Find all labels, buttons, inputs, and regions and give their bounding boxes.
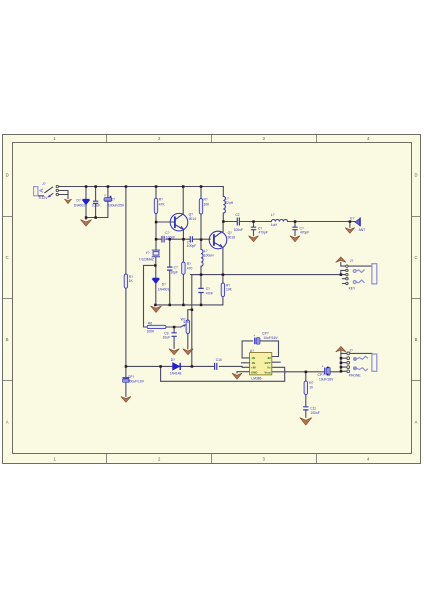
svg-text:1uH: 1uH [271, 223, 278, 227]
svg-text:R6: R6 [148, 322, 152, 326]
svg-text:KEY: KEY [349, 286, 356, 290]
svg-text:10K: 10K [226, 288, 233, 292]
svg-text:9018: 9018 [228, 235, 236, 239]
svg-text:D?: D? [77, 199, 81, 203]
svg-text:L?: L? [271, 213, 275, 217]
svg-text:R?: R? [309, 381, 313, 385]
svg-text:GND: GND [251, 370, 257, 374]
svg-text:B: B [415, 337, 418, 342]
svg-text:J?: J? [349, 348, 353, 352]
svg-text:10uF/16V: 10uF/16V [263, 336, 278, 340]
svg-text:9-12V: 9-12V [39, 196, 49, 200]
svg-text:-IN: -IN [267, 356, 271, 360]
svg-text:R?: R? [159, 197, 163, 201]
svg-text:100nF: 100nF [310, 411, 319, 415]
svg-text:J?: J? [42, 182, 46, 186]
svg-text:Y?: Y? [146, 251, 150, 255]
svg-text:C?: C? [111, 197, 115, 201]
svg-text:E?: E? [350, 217, 354, 221]
svg-text:-IN: -IN [251, 356, 255, 360]
svg-text:C?: C? [206, 287, 210, 291]
svg-text:C?: C? [165, 231, 169, 235]
svg-text:R?: R? [187, 262, 191, 266]
svg-text:C10: C10 [216, 358, 222, 362]
svg-text:1N4001: 1N4001 [158, 287, 170, 291]
svg-text:+IN: +IN [251, 366, 256, 370]
svg-text:470pF: 470pF [258, 231, 267, 235]
svg-text:100uH: 100uH [204, 253, 214, 257]
svg-text:D: D [414, 173, 417, 178]
svg-text:+: + [104, 194, 106, 198]
svg-text:10: 10 [309, 386, 313, 390]
svg-text:100uF/25V: 100uF/25V [108, 204, 125, 208]
svg-text:100nF: 100nF [166, 236, 175, 240]
svg-text:B: B [6, 337, 9, 342]
svg-text:10uF/16V: 10uF/16V [319, 378, 334, 382]
svg-text:CP?: CP? [318, 373, 325, 377]
svg-text:U?: U? [250, 349, 254, 353]
svg-text:R?: R? [204, 197, 208, 201]
svg-text:10K: 10K [204, 203, 211, 207]
svg-text:J?: J? [350, 259, 354, 263]
svg-text:1N4001: 1N4001 [74, 204, 86, 208]
svg-text:D?: D? [162, 282, 166, 286]
svg-text:100uF/10V: 100uF/10V [128, 380, 145, 384]
svg-text:+: + [322, 365, 324, 369]
svg-text:22uH: 22uH [225, 201, 234, 205]
svg-text:100pF: 100pF [187, 244, 196, 248]
svg-text:LM386: LM386 [251, 376, 261, 380]
svg-text:47nF: 47nF [206, 291, 214, 295]
svg-text:PHONE: PHONE [349, 374, 362, 378]
svg-text:100nF: 100nF [234, 228, 243, 232]
svg-text:10pF: 10pF [170, 271, 178, 275]
svg-text:C2: C2 [235, 213, 239, 217]
svg-text:3.3uF: 3.3uF [92, 204, 100, 208]
svg-text:7.023MHZ: 7.023MHZ [139, 257, 154, 261]
svg-text:C?: C? [174, 265, 178, 269]
svg-text:+: + [253, 334, 255, 338]
svg-text:C: C [6, 255, 9, 260]
svg-text:D: D [6, 173, 9, 178]
svg-text:10uF: 10uF [163, 335, 171, 339]
svg-text:1N4148: 1N4148 [170, 372, 182, 376]
svg-text:C: C [414, 255, 417, 260]
svg-text:100K: 100K [147, 329, 156, 333]
svg-text:Vs: Vs [267, 366, 271, 370]
svg-text:Q?: Q? [228, 231, 233, 235]
svg-text:Vout: Vout [264, 370, 270, 374]
svg-text:A: A [6, 420, 9, 425]
svg-text:47K: 47K [183, 320, 190, 324]
svg-text:BYP: BYP [265, 361, 271, 365]
svg-text:470: 470 [187, 267, 193, 271]
svg-text:CP?: CP? [128, 375, 135, 379]
svg-text:-IN: -IN [251, 361, 255, 365]
svg-text:ANT: ANT [359, 228, 366, 232]
svg-text:D?: D? [171, 358, 175, 362]
svg-text:470pF: 470pF [300, 231, 309, 235]
svg-text:9014: 9014 [189, 217, 197, 221]
svg-text:47K: 47K [159, 203, 166, 207]
svg-text:L?: L? [225, 196, 229, 200]
svg-text:R?: R? [226, 283, 230, 287]
svg-text:A: A [415, 420, 418, 425]
